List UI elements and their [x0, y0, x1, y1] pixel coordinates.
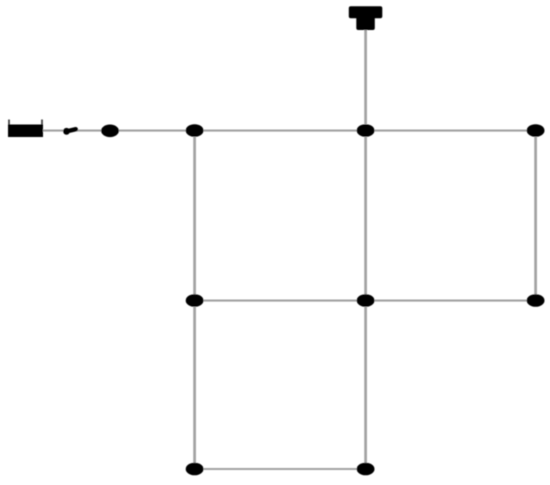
node N2	[186, 124, 204, 137]
wire: node N5 down to node N8	[193, 307, 196, 463]
wire: node N2 to node N3	[201, 130, 359, 132]
wire: node N1 to node N2	[117, 130, 188, 132]
node N7	[527, 294, 545, 307]
wire: node N4 down to node N7	[534, 137, 537, 295]
node N6	[357, 294, 375, 307]
grid/transformer symbol T at top	[349, 6, 383, 30]
source/battery symbol B1	[8, 120, 43, 138]
wire: source to breaker	[43, 130, 64, 132]
node N8	[186, 463, 204, 476]
node N1	[101, 125, 119, 138]
wire: node N6 to node N7	[372, 300, 529, 302]
node N5	[186, 294, 204, 307]
wire: grid symbol down to node N3	[364, 29, 367, 124]
node N4	[527, 124, 545, 137]
wire: node N3 to node N4	[372, 130, 529, 132]
wire: node N2 down to node N5	[193, 137, 196, 295]
node N9	[357, 463, 375, 476]
breaker/switch S1	[63, 128, 76, 135]
node N3	[357, 124, 375, 137]
wire: node N3 down to node N6	[364, 137, 367, 295]
wire: node N8 to node N9	[201, 468, 359, 470]
wire: node N6 down to node N9	[364, 307, 367, 463]
wire: node N5 to node N6	[201, 300, 359, 302]
wire: breaker to node N1	[76, 130, 103, 132]
